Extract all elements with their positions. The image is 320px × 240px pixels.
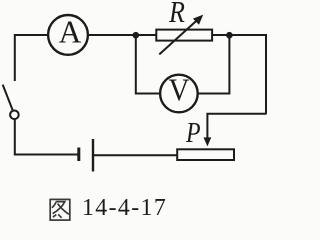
wire voltmeter branch right <box>197 35 229 94</box>
wire lower left rail <box>15 119 78 154</box>
switch S blade <box>3 85 13 110</box>
svg-text:R: R <box>168 0 185 30</box>
wire voltmeter branch left <box>136 35 161 94</box>
svg-text:14-4-17: 14-4-17 <box>82 195 167 221</box>
wire right rail down <box>265 34 267 114</box>
svg-text:V: V <box>169 72 190 107</box>
rheostat arrowhead <box>193 15 203 25</box>
wire to wiper <box>207 114 266 139</box>
resistor R body <box>156 30 212 41</box>
wiper arrowhead <box>204 137 212 146</box>
switch S pivot terminal <box>10 111 19 120</box>
voltmeter V circle <box>160 75 198 113</box>
battery positive plate <box>92 139 94 172</box>
svg-text:A: A <box>59 15 82 50</box>
wire left rail upper <box>14 34 16 81</box>
caption character tu (figure) <box>50 199 70 220</box>
rheostat arrow through R <box>159 18 199 54</box>
potentiometer P body <box>177 149 234 160</box>
node junction left <box>133 32 140 39</box>
wire resistor to right rail <box>212 34 266 36</box>
svg-text:P: P <box>185 117 201 148</box>
wire battery to potentiometer <box>94 154 177 156</box>
wire top-left horizontal <box>15 34 49 36</box>
wire ammeter to resistor <box>89 34 157 36</box>
node junction right <box>226 32 233 39</box>
ammeter A circle <box>48 15 88 55</box>
battery negative plate <box>77 148 80 162</box>
